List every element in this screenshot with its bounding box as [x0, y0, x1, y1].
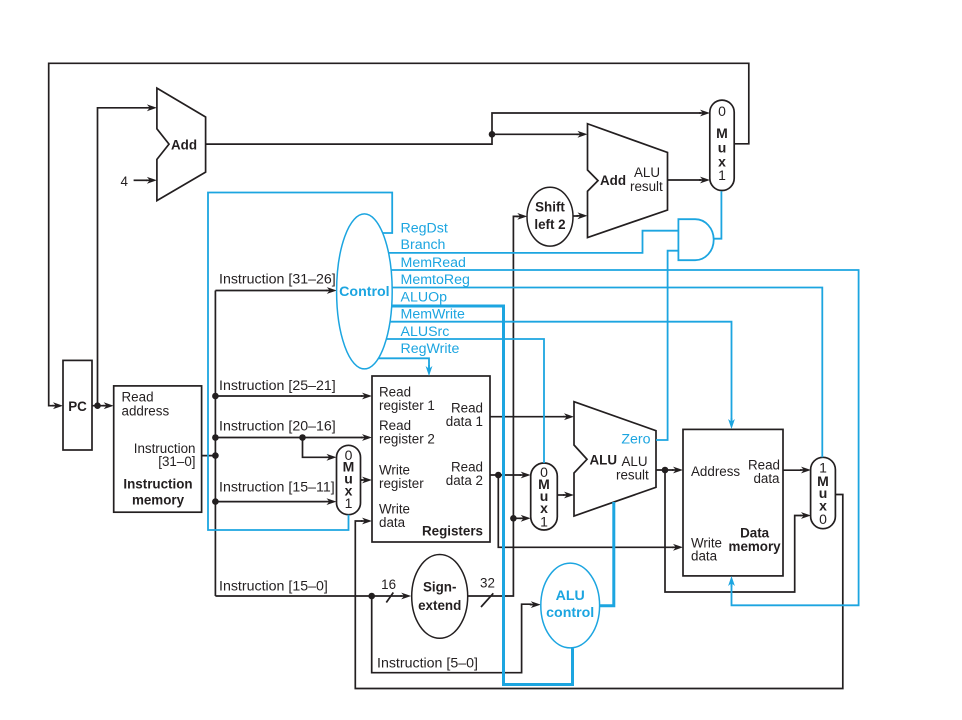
svg-text:Instruction [20–16]: Instruction [20–16] [219, 419, 336, 435]
svg-text:ALU: ALU [556, 588, 585, 604]
wire ALU control out to ALU (thick) [600, 502, 614, 606]
wire: constant 4 into Add [134, 179, 147, 181]
svg-text:Sign-: Sign- [423, 579, 456, 594]
wire: Instruction [20-16] [215, 438, 362, 458]
svg-text:result: result [630, 179, 663, 194]
svg-text:data: data [691, 549, 718, 564]
svg-text:32: 32 [480, 576, 495, 591]
svg-text:data: data [753, 471, 780, 486]
arrow PC+4 into top mux input 0 [699, 112, 704, 114]
wire: sign-extend output to ALU mux and shift left 2 [468, 216, 521, 596]
wire: shift left 2 out to branch adder [573, 215, 579, 217]
wire: branch adder out to top mux input 1 [668, 179, 702, 181]
svg-text:data 1: data 1 [446, 414, 483, 429]
svg-text:Address: Address [691, 464, 740, 479]
adder Add (PC+4) [157, 88, 206, 201]
svg-text:PC: PC [68, 399, 87, 414]
arrow into Add top input [146, 107, 151, 109]
svg-text:16: 16 [381, 577, 396, 592]
svg-text:[31–0]: [31–0] [158, 454, 195, 469]
svg-text:Instruction: Instruction [123, 477, 192, 492]
wire MemWrite [370, 322, 732, 422]
wire: Instruction [15-0] to sign extend [215, 595, 402, 597]
wire Branch [370, 231, 678, 253]
wire RegWrite [370, 358, 429, 369]
svg-text:Instruction [25–21]: Instruction [25–21] [219, 378, 336, 394]
svg-text:1: 1 [540, 514, 548, 530]
svg-text:Registers: Registers [422, 524, 483, 539]
shift left 2 oval [527, 187, 573, 246]
wire: Instruction [5-0] to ALU control [372, 596, 532, 673]
wire: Read data 2 to mux and data memory write data [490, 475, 674, 547]
svg-text:0: 0 [718, 103, 726, 119]
svg-text:Add: Add [171, 138, 197, 153]
arrow 4 into Add [146, 179, 151, 181]
wire: mux ALU-src out to ALU [557, 494, 564, 496]
arrow PC+4 into branch adder top input [577, 133, 582, 135]
svg-text:RegDst: RegDst [401, 221, 448, 237]
PC register [63, 360, 92, 450]
svg-text:Branch: Branch [401, 237, 446, 253]
svg-text:Instruction [15–11]: Instruction [15–11] [219, 480, 335, 496]
junction dot PC output [94, 402, 101, 409]
svg-text:MemtoReg: MemtoReg [401, 272, 470, 288]
svg-text:control: control [546, 605, 594, 621]
svg-text:data 2: data 2 [446, 473, 483, 488]
svg-text:ALU: ALU [590, 452, 618, 467]
svg-text:left 2: left 2 [534, 217, 565, 232]
ALU control oval [541, 563, 600, 648]
arrow into PC [52, 405, 57, 407]
mux write-back (1/0) [811, 457, 836, 528]
svg-text:ALUSrc: ALUSrc [401, 324, 450, 340]
registers box [372, 376, 490, 542]
cyan control signal labels [401, 221, 470, 357]
wire: PC output to instruction memory and up to Add [92, 108, 146, 406]
svg-text:Zero: Zero [621, 432, 650, 448]
slash 32 [481, 593, 493, 607]
data memory box [683, 429, 783, 576]
svg-text:0: 0 [819, 511, 827, 527]
wire MemRead [370, 270, 859, 605]
svg-text:result: result [616, 468, 649, 483]
wire AND out to top mux select [714, 191, 722, 239]
wire Zero to AND gate [656, 251, 678, 440]
mux write-register (0/1) [337, 445, 361, 514]
svg-text:MemWrite: MemWrite [401, 307, 465, 323]
wire: write-back mux out to registers Write data [355, 495, 843, 689]
wire: Instruction [25-21] [215, 395, 362, 397]
svg-text:Read: Read [122, 389, 154, 404]
ALU main [574, 402, 656, 516]
control oval [337, 214, 393, 369]
adder Add ALU result (branch) [588, 124, 668, 238]
arrow into instruction memory Read address [103, 405, 108, 407]
wire: Instruction [31-26] to Control [215, 290, 327, 292]
svg-text:data: data [379, 515, 406, 530]
wire ALUOp (thick) [370, 306, 573, 685]
wire: Add output (PC+4) to top mux and branch adder [206, 113, 701, 144]
wire: instruction bus vertical [202, 291, 216, 597]
svg-text:extend: extend [418, 598, 461, 613]
svg-text:Shift: Shift [535, 200, 565, 215]
svg-text:Instruction [31–26]: Instruction [31–26] [219, 272, 336, 288]
AND gate [678, 219, 713, 260]
svg-text:register 2: register 2 [379, 432, 435, 447]
wire: Read data to mux wb input 1 [783, 469, 802, 471]
junction dot instruction output [212, 452, 219, 459]
instruction memory box [114, 386, 202, 512]
wire MemtoReg [370, 288, 822, 458]
wire: mux out to Write register [361, 479, 363, 481]
svg-text:address: address [122, 403, 170, 418]
cyan wires [208, 191, 859, 684]
sign-extend oval [412, 555, 468, 639]
svg-text:memory: memory [729, 539, 782, 554]
wire: Instruction [15-11] [215, 501, 325, 503]
svg-text:RegWrite: RegWrite [401, 341, 460, 357]
slash 16 [386, 593, 393, 603]
svg-text:Add: Add [600, 173, 626, 188]
junction dot PC+4 [489, 131, 496, 138]
svg-text:ALUOp: ALUOp [401, 290, 448, 306]
svg-text:register 1: register 1 [379, 398, 435, 413]
wire: ALU result to data memory Address and bypass to mux [656, 470, 802, 592]
svg-text:Control: Control [339, 284, 389, 300]
svg-text:4: 4 [121, 174, 129, 189]
svg-text:1: 1 [718, 167, 726, 183]
svg-text:memory: memory [132, 492, 185, 507]
svg-text:1: 1 [345, 495, 353, 511]
wire: Read data 1 to ALU [490, 416, 565, 418]
wire ALUSrc [370, 339, 544, 463]
svg-text:ALU: ALU [634, 165, 660, 180]
svg-text:Instruction [5–0]: Instruction [5–0] [377, 656, 478, 672]
svg-text:register: register [379, 476, 424, 491]
svg-text:MemRead: MemRead [401, 255, 466, 271]
mux top (0/1 branch select) [710, 100, 734, 190]
svg-text:Instruction [15–0]: Instruction [15–0] [219, 579, 328, 595]
wire RegDst [208, 193, 392, 531]
mux ALU-src (0/1) [531, 463, 558, 530]
wire: Mux(top) output loop back to PC input [49, 63, 749, 405]
